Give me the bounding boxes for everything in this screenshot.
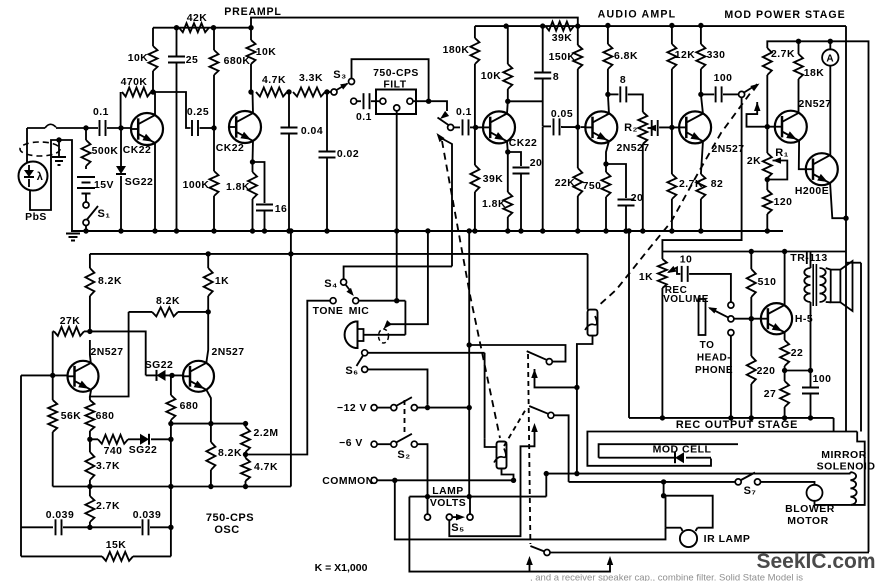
svg-text:4.7K: 4.7K — [262, 75, 286, 86]
svg-text:LAMP: LAMP — [432, 486, 463, 497]
svg-text:20: 20 — [631, 193, 644, 204]
svg-text:10K: 10K — [128, 53, 149, 64]
svg-text:2.7K: 2.7K — [96, 501, 120, 512]
svg-text:18K: 18K — [804, 68, 825, 79]
svg-text:180K: 180K — [443, 45, 470, 56]
svg-text:2N527: 2N527 — [211, 347, 244, 358]
svg-text:S₄: S₄ — [324, 278, 338, 290]
svg-text:PbS: PbS — [25, 212, 47, 223]
svg-text:R₂: R₂ — [624, 122, 638, 134]
svg-text:FILT: FILT — [383, 80, 406, 91]
svg-text:TO: TO — [700, 340, 715, 351]
svg-text:2N527: 2N527 — [616, 143, 649, 154]
svg-text:SOLENOID: SOLENOID — [817, 461, 876, 473]
svg-text:0.039: 0.039 — [46, 510, 75, 521]
svg-text:0.04: 0.04 — [301, 126, 323, 137]
svg-text:4.7K: 4.7K — [254, 462, 278, 473]
svg-text:330: 330 — [707, 50, 726, 61]
svg-text:PHONE: PHONE — [695, 365, 733, 376]
svg-text:16: 16 — [275, 204, 288, 215]
svg-text:IR LAMP: IR LAMP — [704, 533, 751, 545]
svg-text:500K: 500K — [92, 146, 119, 157]
svg-text:0.1: 0.1 — [456, 107, 472, 118]
svg-text:3.3K: 3.3K — [299, 73, 323, 84]
svg-text:25: 25 — [186, 55, 199, 66]
svg-text:27: 27 — [764, 389, 777, 400]
svg-text:0.05: 0.05 — [551, 109, 573, 120]
svg-text:HEAD-: HEAD- — [697, 353, 731, 364]
svg-text:100: 100 — [813, 374, 832, 385]
svg-text:22: 22 — [791, 348, 804, 359]
svg-text:740: 740 — [104, 446, 123, 457]
svg-text:MOD CELL: MOD CELL — [653, 444, 712, 456]
svg-text:BLOWER: BLOWER — [785, 503, 835, 515]
svg-text:S₇: S₇ — [744, 485, 757, 497]
svg-text:S₂: S₂ — [397, 449, 410, 461]
svg-text:0.1: 0.1 — [356, 112, 372, 123]
svg-text:−12 V: −12 V — [337, 403, 367, 414]
svg-text:680: 680 — [96, 411, 115, 422]
svg-text:1.8K: 1.8K — [226, 182, 250, 193]
svg-text:2N527: 2N527 — [798, 99, 831, 110]
svg-text:2.7K: 2.7K — [771, 49, 795, 60]
svg-text:750: 750 — [583, 181, 602, 192]
svg-text:22K: 22K — [555, 178, 576, 189]
svg-text:2N527: 2N527 — [711, 144, 744, 155]
svg-text:SG22: SG22 — [129, 445, 158, 456]
svg-text:A: A — [826, 54, 834, 65]
svg-text:S₃: S₃ — [333, 69, 346, 81]
svg-text:MIC: MIC — [349, 306, 370, 317]
svg-text:SG22: SG22 — [125, 177, 154, 188]
svg-text:27K: 27K — [60, 316, 81, 327]
svg-text:680K: 680K — [224, 56, 251, 67]
svg-text:MOTOR: MOTOR — [787, 515, 828, 527]
svg-text:8.2K: 8.2K — [218, 448, 242, 459]
svg-text:510: 510 — [758, 277, 777, 288]
svg-text:20: 20 — [530, 158, 543, 169]
svg-text:CK22: CK22 — [216, 143, 245, 154]
svg-text:PREAMPL: PREAMPL — [224, 6, 281, 18]
svg-text:680: 680 — [180, 401, 199, 412]
svg-text:R₁: R₁ — [775, 147, 789, 159]
svg-text:0.039: 0.039 — [133, 510, 162, 521]
svg-text:10: 10 — [680, 255, 693, 266]
svg-text:750-CPS: 750-CPS — [206, 512, 254, 524]
svg-text:10K: 10K — [256, 47, 277, 58]
svg-text:TONE: TONE — [313, 306, 344, 317]
svg-text:750-CPS: 750-CPS — [373, 68, 419, 79]
svg-text:0.25: 0.25 — [187, 107, 209, 118]
svg-text:2N527: 2N527 — [90, 347, 123, 358]
svg-text:2K: 2K — [747, 156, 761, 167]
svg-text:8: 8 — [553, 72, 559, 83]
svg-text:λ: λ — [37, 171, 44, 183]
svg-text:CK22: CK22 — [123, 145, 152, 156]
svg-text:100K: 100K — [183, 180, 210, 191]
svg-text:39K: 39K — [483, 174, 504, 185]
svg-text:AUDIO AMPL: AUDIO AMPL — [598, 9, 677, 21]
svg-text:0.02: 0.02 — [337, 149, 359, 160]
svg-text:, and a receiver speaker cap.,: , and a receiver speaker cap., combine f… — [530, 573, 803, 581]
svg-text:OSC: OSC — [214, 524, 239, 536]
svg-text:SG22: SG22 — [145, 360, 174, 371]
svg-text:6.8K: 6.8K — [614, 51, 638, 62]
svg-text:82: 82 — [711, 179, 724, 190]
svg-text:150K: 150K — [549, 52, 576, 63]
svg-text:S₅: S₅ — [451, 522, 464, 534]
svg-text:SeekIC.com: SeekIC.com — [756, 550, 875, 573]
svg-text:42K: 42K — [187, 13, 208, 24]
svg-text:3.7K: 3.7K — [96, 461, 120, 472]
svg-text:TR-113: TR-113 — [790, 252, 827, 264]
svg-text:MIRROR: MIRROR — [821, 449, 867, 461]
svg-text:MOD POWER STAGE: MOD POWER STAGE — [724, 9, 845, 21]
svg-text:10K: 10K — [481, 71, 502, 82]
svg-text:15K: 15K — [106, 540, 127, 551]
svg-text:100: 100 — [714, 73, 733, 84]
svg-text:15V: 15V — [94, 180, 114, 191]
svg-text:H200E: H200E — [795, 186, 829, 197]
svg-text:K = X1,000: K = X1,000 — [315, 562, 368, 574]
svg-text:470K: 470K — [121, 77, 148, 88]
svg-text:S₆: S₆ — [345, 365, 358, 377]
svg-text:−6 V: −6 V — [339, 438, 363, 449]
svg-text:VOLTS: VOLTS — [430, 498, 466, 509]
svg-text:0.1: 0.1 — [93, 107, 109, 118]
svg-text:220: 220 — [757, 366, 776, 377]
svg-text:REC OUTPUT STAGE: REC OUTPUT STAGE — [676, 419, 798, 431]
svg-text:COMMON: COMMON — [322, 476, 373, 487]
svg-text:8.2K: 8.2K — [156, 296, 180, 307]
svg-text:1.8K: 1.8K — [482, 199, 506, 210]
svg-text:8: 8 — [620, 75, 626, 86]
svg-text:8.2K: 8.2K — [98, 276, 122, 287]
svg-text:1K: 1K — [639, 272, 653, 283]
svg-text:S₁: S₁ — [98, 208, 111, 220]
svg-text:120: 120 — [774, 197, 793, 208]
svg-text:CK22: CK22 — [509, 138, 538, 149]
svg-text:1K: 1K — [215, 276, 229, 287]
svg-text:39K: 39K — [552, 33, 573, 44]
svg-text:56K: 56K — [61, 411, 82, 422]
svg-text:2.2M: 2.2M — [253, 428, 278, 439]
svg-text:12K: 12K — [675, 50, 696, 61]
